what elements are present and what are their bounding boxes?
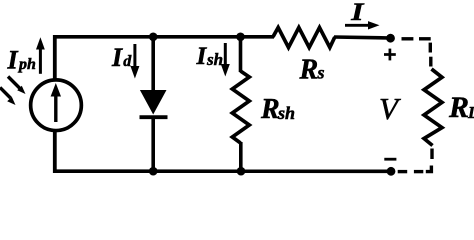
node dot top Rsh junction xyxy=(236,33,245,42)
resistor RL zigzag xyxy=(424,69,442,146)
label Ish xyxy=(196,43,224,70)
light arrow upper xyxy=(8,77,26,95)
svg-text:sh: sh xyxy=(206,50,223,69)
wire left rail lower xyxy=(53,130,57,173)
svg-text:ph: ph xyxy=(17,56,36,73)
Iph arrow up xyxy=(36,37,45,74)
dashed wire bottom run xyxy=(398,170,424,173)
Id arrow down xyxy=(130,44,139,79)
minus terminal xyxy=(384,158,396,161)
node dot top diode junction xyxy=(149,33,158,42)
diode D1 triangle xyxy=(140,90,167,115)
svg-text:I: I xyxy=(350,0,364,26)
node dot top output terminal xyxy=(386,34,395,43)
current source U1 circle xyxy=(31,80,82,131)
wire Rsh branch upper stub xyxy=(239,35,243,72)
current source arrow xyxy=(51,83,61,122)
svg-text:I: I xyxy=(196,43,208,70)
node dot bottom output terminal xyxy=(387,167,396,176)
node dot bottom diode junction xyxy=(149,167,158,176)
svg-text:R: R xyxy=(260,94,280,125)
wire left rail upper xyxy=(53,35,57,81)
label Iph xyxy=(7,46,37,75)
wire top rail right segment xyxy=(334,37,390,38)
wire diode branch lower xyxy=(151,117,155,171)
svg-text:L: L xyxy=(467,103,474,122)
Ish arrow down xyxy=(221,43,230,77)
dashed wire right lower run xyxy=(426,149,432,172)
dashed wire right upper run xyxy=(429,43,433,67)
plus terminal xyxy=(384,49,396,61)
svg-text:I: I xyxy=(111,43,123,72)
svg-text:s: s xyxy=(317,63,325,83)
dashed wire top run xyxy=(402,37,431,40)
wire top rail left segment xyxy=(53,35,274,39)
wire Rsh branch lower stub xyxy=(239,142,243,171)
svg-text:R: R xyxy=(299,55,319,86)
light arrow lower xyxy=(0,88,16,106)
svg-text:I: I xyxy=(7,46,19,75)
svg-text:R: R xyxy=(448,91,469,124)
node dot bottom Rsh junction xyxy=(237,167,246,176)
I arrow right xyxy=(345,21,380,29)
wire bottom rail xyxy=(53,169,391,173)
resistor Rsh zigzag xyxy=(232,71,249,143)
svg-text:sh: sh xyxy=(277,103,295,123)
label RL xyxy=(448,91,474,124)
wire diode branch upper xyxy=(151,35,155,91)
diode D1 cathode bar xyxy=(140,115,168,119)
label Rsh xyxy=(260,94,295,125)
label Rs xyxy=(299,55,325,86)
svg-text:V: V xyxy=(379,91,401,126)
svg-text:d: d xyxy=(123,53,132,70)
resistor Rs zigzag xyxy=(273,28,335,48)
label Id xyxy=(111,43,132,72)
